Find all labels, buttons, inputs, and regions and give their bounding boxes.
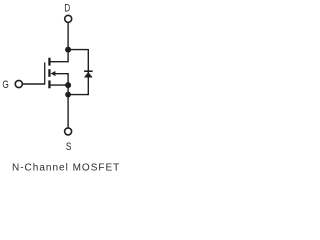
terminal D circle — [65, 15, 72, 22]
svg-text:G: G — [2, 79, 8, 91]
node drain junction — [65, 47, 71, 53]
MOSFET channel source bar — [48, 80, 50, 88]
MOSFET channel drain bar — [48, 58, 50, 66]
wire source junction to diode junction — [67, 85, 69, 95]
wire diode anode — [68, 94, 88, 96]
wire drain junction to MOSFET drain — [50, 50, 69, 62]
wire body to source node — [55, 74, 68, 85]
wire drain terminal to junction — [67, 23, 69, 50]
terminal S circle — [65, 128, 72, 135]
MOSFET body arrow — [51, 71, 56, 76]
terminal G circle — [15, 80, 22, 87]
diode anode triangle — [84, 72, 93, 78]
MOSFET channel body bar — [48, 69, 50, 77]
wire gate — [23, 83, 45, 85]
wire MOSFET source bar to source node — [51, 84, 69, 86]
svg-text:N-Channel MOSFET: N-Channel MOSFET — [12, 163, 120, 174]
diode cathode bar — [84, 70, 93, 72]
MOSFET gate line — [44, 62, 46, 84]
node diode anode junction — [65, 92, 71, 98]
wire source junction to terminal — [67, 95, 69, 128]
wire drain junction to diode cathode — [68, 49, 88, 51]
node source junction — [65, 82, 71, 88]
svg-text:D: D — [64, 3, 70, 15]
diode body (vertical lead) — [87, 49, 89, 95]
svg-text:S: S — [66, 141, 72, 153]
